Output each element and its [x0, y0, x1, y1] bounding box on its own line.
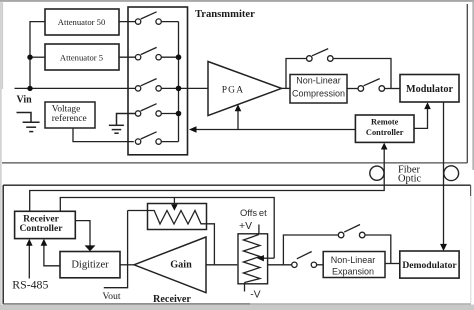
wire attenuator50 output — [119, 21, 135, 23]
switch S8 — [292, 252, 317, 268]
wire feedback branch to PGA — [237, 107, 239, 130]
transmitter panel right border — [466, 4, 468, 163]
wire digitizer to gain — [120, 264, 135, 266]
op-amp gain (points left) — [134, 237, 206, 293]
wire -V stub — [244, 283, 246, 292]
svg-text:Vin: Vin — [17, 95, 33, 106]
switch S3 row3 — [135, 79, 178, 92]
svg-text:reference: reference — [52, 113, 87, 124]
svg-text:PGA: PGA — [222, 85, 245, 95]
svg-text:Remote: Remote — [371, 118, 399, 127]
wire receiver controller to digitizer — [75, 221, 90, 248]
wire attenuator5 output — [119, 56, 135, 58]
page left gray edge — [0, 2, 2, 305]
wire controller line A to feedback resistor — [60, 198, 274, 259]
fiber optic coupler right — [444, 166, 459, 181]
wire demodulator to expansion — [385, 263, 400, 265]
switch bank bus — [178, 22, 180, 142]
wire remote controller feedback to switches — [193, 129, 355, 131]
svg-text:Digitizer: Digitizer — [71, 260, 109, 271]
transmitter panel left border — [1, 3, 3, 90]
receiver panel right border stub — [470, 185, 472, 196]
junction dot bus row4 — [176, 111, 182, 117]
transmitter panel bottom border — [2, 162, 467, 164]
wire attenuator5 input — [30, 56, 45, 58]
wire bypass to demodulator net — [365, 235, 391, 264]
switch S9 bypass — [338, 225, 365, 238]
junction dot bus row2 — [176, 54, 182, 60]
digitizer box — [60, 252, 120, 278]
ground symbol at switch row4 — [109, 114, 135, 134]
wire digitizer to receiver controller — [44, 243, 60, 266]
resistor R2 offset zigzag — [243, 235, 260, 283]
svg-text:RS-485: RS-485 — [12, 278, 48, 292]
ground symbol at Vin — [17, 113, 40, 132]
arrowhead into remote controller bottom — [381, 143, 388, 150]
svg-text:Controller: Controller — [20, 223, 64, 234]
wire remote controller to modulator — [414, 105, 428, 129]
fiber optic coupler left — [370, 166, 384, 180]
switch S4 row4 — [135, 104, 178, 117]
wire arrow stem into feedback resistor — [173, 198, 175, 208]
wire modulator to fiber — [443, 102, 445, 249]
svg-text:Non-Linear: Non-Linear — [296, 75, 341, 85]
modulator U1 box — [400, 75, 459, 103]
svg-text:Voltage: Voltage — [52, 105, 80, 115]
wire RS-485 input — [28, 243, 30, 279]
svg-text:Attenuator 50: Attenuator 50 — [58, 17, 106, 27]
voltage reference box — [45, 102, 95, 128]
svg-text:Optic: Optic — [398, 173, 421, 184]
wire pot wiper — [263, 257, 275, 259]
wire pot to switch S8 — [268, 264, 292, 266]
arrowhead RS-485 into receiver controller — [26, 239, 33, 246]
svg-text:Non-Linear: Non-Linear — [331, 255, 376, 265]
arrowhead into modulator bottom — [424, 102, 431, 109]
wire expansion bypass — [283, 235, 338, 265]
wire +V stub — [258, 225, 260, 235]
wire compression output — [347, 88, 358, 90]
page right gray edge — [472, 2, 474, 170]
switch bank box — [128, 7, 188, 155]
offset potentiometer box — [238, 234, 268, 284]
remote controller box — [355, 115, 414, 142]
svg-text:Compression: Compression — [292, 88, 345, 98]
wire switch S8 to expansion — [317, 264, 324, 266]
op-amp PGA — [208, 62, 282, 116]
wire bypass to modulator net — [333, 59, 391, 89]
receiver panel bottom border — [3, 303, 250, 305]
demodulator box — [400, 251, 459, 278]
non-linear expansion box — [323, 252, 385, 278]
attenuator 5 box — [45, 44, 119, 70]
switch S5 row5 — [135, 132, 178, 145]
svg-text:Expansion: Expansion — [332, 266, 374, 276]
wire gain output / Vout tap — [104, 211, 128, 288]
wire attenuator50 input — [30, 22, 45, 58]
wire voltage reference to switch row5 — [73, 128, 134, 142]
resistor R1 zigzag — [128, 211, 207, 225]
junction dot bus row3 — [176, 86, 182, 92]
arrowhead feedback into switch bank — [189, 126, 197, 133]
arrowhead pot wiper — [257, 255, 264, 261]
attenuator 50 box — [45, 9, 119, 35]
svg-text:Transmmiter: Transmmiter — [195, 9, 255, 20]
switch S7 — [358, 79, 385, 92]
svg-text:Modulator: Modulator — [406, 84, 453, 95]
switch S6 bypass — [307, 49, 334, 62]
page top gray strip — [0, 0, 474, 2]
svg-text:Controller: Controller — [366, 128, 404, 137]
svg-text:Offs et: Offs et — [240, 207, 267, 218]
svg-text:Vout: Vout — [102, 291, 121, 302]
switch S2 row2 — [135, 47, 178, 60]
svg-text:-V: -V — [250, 289, 260, 300]
receiver panel left border — [2, 185, 4, 304]
receiver controller box — [15, 211, 76, 238]
receiver panel top border — [3, 184, 470, 186]
arrowhead into feedback resistor — [171, 204, 178, 211]
junction dot Vin — [27, 86, 32, 91]
arrowhead into demodulator top — [440, 244, 447, 251]
wire Vin input — [15, 87, 136, 89]
wire compression bypass — [286, 59, 307, 89]
svg-text:Gain: Gain — [170, 260, 192, 271]
svg-text:Attenuator 5: Attenuator 5 — [60, 53, 103, 63]
arrowhead into PGA bottom — [235, 104, 242, 111]
feedback resistor box — [148, 204, 207, 230]
switch S1 row1 — [135, 12, 178, 24]
svg-text:Demodulator: Demodulator — [402, 260, 457, 271]
svg-text:Receiver: Receiver — [153, 294, 191, 305]
wire gain input from offset pot — [206, 264, 237, 266]
wire PGA output — [282, 87, 291, 89]
junction dot attenuator tap — [27, 55, 32, 60]
arrowhead digitizer to receiver controller — [41, 239, 48, 246]
wire to modulator — [385, 88, 400, 90]
non-linear compression box — [290, 75, 347, 104]
wire feedback resistor right leg — [207, 224, 215, 265]
svg-text:+V: +V — [239, 221, 252, 232]
page bottom gray strip — [0, 305, 474, 310]
wire vin riser — [29, 57, 31, 88]
wire receiver controller to remote controller — [30, 147, 385, 212]
wire bus to PGA input — [179, 87, 209, 89]
arrowhead into digitizer top — [85, 245, 96, 251]
